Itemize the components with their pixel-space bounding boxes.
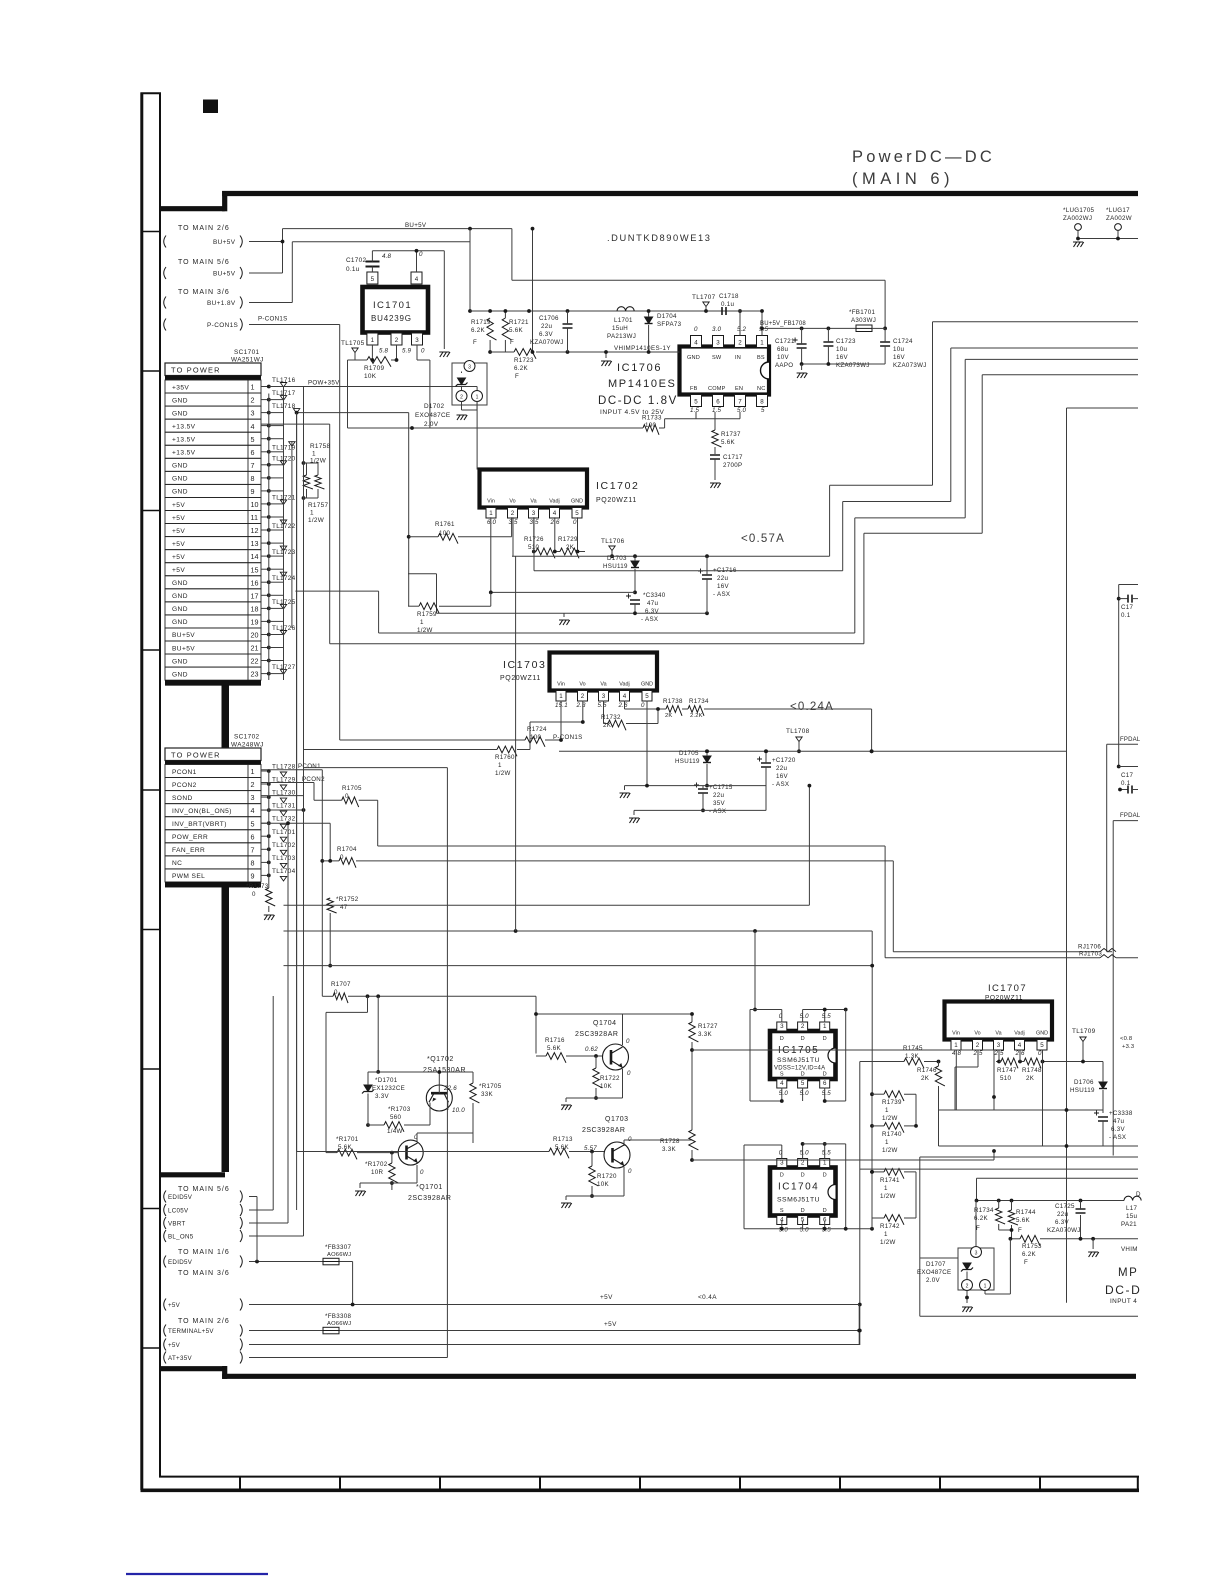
svg-text:<0.8: <0.8 [1120,1036,1132,1042]
svg-text:*R1703: *R1703 [388,1106,411,1113]
svg-text:R1746: R1746 [917,1067,937,1074]
footer blue rule [126,1573,268,1575]
wire BU+5V drop x=532.5 [531,227,535,354]
inductor L1703 15u PA21.. (cut) [1121,1191,1141,1228]
svg-text:MP: MP [1118,1267,1138,1279]
wire Q1702 loop left edge [367,1072,369,1125]
svg-text:GND: GND [172,671,188,678]
svg-text:EX1232CE: EX1232CE [372,1085,405,1092]
resistor R1752 47 [327,896,359,967]
svg-text:100: 100 [439,530,450,537]
svg-text:FPDAL: FPDAL [1120,813,1141,819]
wire IC1707 pin1 stub [939,1050,957,1110]
connector TO MAIN 2/6 (bottom) [164,1318,243,1364]
svg-text:1.5: 1.5 [712,407,722,414]
svg-text:ZA002W: ZA002W [1106,215,1132,222]
svg-text:3: 3 [716,340,720,347]
svg-text:+5V: +5V [172,567,185,574]
svg-text:1: 1 [310,510,314,517]
svg-text:4: 4 [553,510,557,517]
svg-text:R1713: R1713 [553,1136,573,1143]
svg-text:3: 3 [780,1023,784,1030]
svg-text:F: F [976,1225,980,1232]
svg-text:D: D [801,1173,805,1179]
svg-text:1/2W: 1/2W [495,770,511,777]
svg-text:1: 1 [371,337,375,344]
svg-text:1/2W: 1/2W [882,1147,898,1154]
resistor R1707 0 [322,981,536,1054]
svg-text:0.1u: 0.1u [721,301,735,308]
resistor R1746 2K [917,1062,945,1111]
svg-text:1: 1 [559,693,563,700]
svg-text:+5V: +5V [172,515,185,522]
svg-text:R1704: R1704 [337,846,357,853]
svg-text:IC1701: IC1701 [373,300,412,311]
svg-text:5.5: 5.5 [598,702,608,709]
svg-text:10: 10 [251,500,259,509]
wires IC1705 top pins [750,1008,848,1101]
ground below C1721 [797,362,886,378]
resistor R1748 2K [1018,1050,1103,1146]
capacitor C1702 0.1u [346,251,380,273]
output wire 5V from IC1702 [512,322,1138,558]
svg-text:Vo: Vo [974,1031,980,1037]
svg-text:IC1706: IC1706 [617,362,662,374]
svg-text:- ASX: - ASX [713,591,730,598]
svg-text:D1705: D1705 [679,750,699,757]
svg-text:INV_ON(BL_ON5): INV_ON(BL_ON5) [172,808,232,815]
svg-text:KZA073WJ: KZA073WJ [836,362,870,369]
svg-text:4: 4 [623,693,627,700]
diode D1707 EXO487CE (boxed) [917,1201,1010,1313]
svg-text:4: 4 [251,422,255,431]
resistor R1734b 6.2K F [974,1201,1010,1233]
svg-text:0.62: 0.62 [585,1046,598,1053]
resistor R1703 560 1/4W [368,1103,430,1135]
svg-text:D1702: D1702 [424,403,444,410]
resistor R1740 1 1/2W [872,1123,918,1155]
svg-text:PCON2: PCON2 [302,776,325,783]
svg-text:*R1752: *R1752 [336,896,359,903]
svg-text:C1718: C1718 [719,293,739,300]
svg-text:2K: 2K [566,544,575,551]
svg-text:6.3V: 6.3V [645,608,660,615]
resistor R1729 2K [555,517,585,558]
svg-text:1: 1 [251,767,255,776]
svg-text:*FB3307: *FB3307 [325,1244,351,1251]
resistor R1716 5.6K [536,1037,602,1063]
svg-text:22u: 22u [541,323,552,330]
svg-text:10u: 10u [836,346,847,353]
svg-text:Vin: Vin [952,1031,960,1037]
svg-text:5.5: 5.5 [822,1090,832,1097]
svg-text:TO MAIN 1/6: TO MAIN 1/6 [178,1249,230,1256]
svg-text:NC: NC [172,860,182,867]
svg-text:BS: BS [757,355,765,361]
svg-text:2K: 2K [921,1075,930,1082]
svg-text:0: 0 [573,519,577,526]
svg-text:GND: GND [172,463,188,470]
svg-text:6.0: 6.0 [487,519,497,526]
test points TL1716-TL1727 on SC1701 rows [262,377,300,675]
svg-text:4: 4 [694,340,698,347]
svg-text:D1706: D1706 [1074,1079,1094,1086]
svg-text:10K: 10K [364,373,377,380]
svg-text:R1753: R1753 [1022,1243,1042,1250]
svg-text:TO MAIN 3/6: TO MAIN 3/6 [178,289,230,296]
svg-text:PQ20WZ11: PQ20WZ11 [596,497,637,504]
wires IC1705 bottom pins [750,1062,827,1103]
svg-text:4.8: 4.8 [382,253,392,260]
svg-text:5: 5 [251,819,255,828]
wire right vert bus x=1066.5 [1067,408,1139,1303]
net +5V rail 1 [249,1305,859,1346]
svg-text:*FB3308: *FB3308 [325,1313,351,1320]
connector TO MAIN 3/6 (top) [164,289,243,331]
svg-text:3: 3 [602,693,606,700]
svg-text:GND: GND [172,606,188,613]
corner index square [203,100,218,114]
svg-text:5.5: 5.5 [822,1150,832,1157]
svg-text:KZA073WJ: KZA073WJ [893,362,927,369]
svg-text:5.2: 5.2 [737,326,747,333]
svg-text:22u: 22u [717,575,728,582]
svg-text:15uH: 15uH [612,325,628,332]
svg-text:VDSS=12V,ID=4A: VDSS=12V,ID=4A [774,1066,825,1072]
svg-text:+13.5V: +13.5V [172,423,196,430]
net PCON2 wire [262,776,342,800]
svg-text:2SC3928AR: 2SC3928AR [582,1127,625,1134]
capacitor C1718 0.1u (series) [719,293,764,336]
connector SC1702 TO POWER table [160,734,264,1175]
capacitor C1722 0.1u (upper right stub) [1117,585,1138,767]
svg-text:Q1704: Q1704 [593,1020,617,1027]
svg-text:R1719: R1719 [471,319,491,326]
svg-text:1: 1 [884,1185,888,1192]
IC1706 MP1410ES [598,326,769,416]
svg-text:SOND: SOND [172,795,193,802]
svg-text:+5V: +5V [168,1342,181,1349]
svg-text:R1720: R1720 [597,1173,617,1180]
svg-text:16V: 16V [717,583,729,590]
net P-CON1S wire [249,316,340,741]
test point TL1705 [341,340,374,362]
svg-text:R1723: R1723 [514,357,534,364]
svg-text:*Q1701: *Q1701 [416,1184,443,1191]
svg-text:HSU119: HSU119 [603,563,628,570]
resistor R1720 10K [589,1152,617,1198]
mesh wire y=931 [284,556,873,1094]
svg-text:TL1707: TL1707 [692,294,716,301]
transistor Q1703 2SC3928AR (NPN) [582,1116,632,1175]
jumper RJ1703 wire [885,951,1138,958]
test point TL1707 [692,294,716,313]
svg-text:TO MAIN 2/6: TO MAIN 2/6 [178,225,230,232]
connector TO MAIN 2/6 (top) [164,225,243,248]
svg-text:16V: 16V [836,354,848,361]
svg-text:100: 100 [645,422,656,429]
svg-text:C1706: C1706 [539,315,559,322]
svg-text:D: D [823,1208,827,1214]
svg-text:20: 20 [251,631,259,640]
svg-text:FAN_ERR: FAN_ERR [172,847,205,854]
mesh branch to Q1701 base [326,996,368,1152]
resistor R1737 5.6K [712,412,741,454]
inductor L1701 15uH PA213WJ [607,307,636,340]
svg-text:22u: 22u [776,765,787,772]
svg-text:5: 5 [761,407,765,414]
svg-text:47u: 47u [1113,1118,1124,1125]
svg-text:BU+5V_FB1708: BU+5V_FB1708 [760,321,806,327]
svg-text:R1733: R1733 [642,415,662,422]
svg-text:+13.5V: +13.5V [172,437,196,444]
svg-text:AO66WJ: AO66WJ [327,1252,351,1258]
wires IC1704 bottom pins [744,1196,874,1231]
svg-text:GND: GND [172,658,188,665]
svg-text:Vadj: Vadj [549,499,559,505]
svg-text:R1716: R1716 [545,1037,565,1044]
diode D1703 HSU119 [603,555,639,594]
mesh vertical wires mid-page [297,387,304,1237]
svg-text:17: 17 [251,591,259,600]
svg-text:6.3V: 6.3V [1111,1126,1126,1133]
resistor R1727 3.3K [689,1022,718,1095]
svg-text:GND: GND [172,489,188,496]
svg-text:L1701: L1701 [614,317,633,324]
svg-text:GND: GND [172,476,188,483]
svg-text:TO MAIN 2/6: TO MAIN 2/6 [178,1318,230,1325]
svg-text:13: 13 [251,539,259,548]
wire R1727 mid to IC1705 [692,1050,996,1110]
wire INV_ON row [262,808,306,812]
svg-text:0: 0 [419,251,423,258]
svg-text:10K: 10K [597,1181,609,1188]
svg-text:22.6: 22.6 [443,1085,457,1092]
svg-text:F: F [1018,1227,1022,1234]
svg-text:Vo: Vo [509,499,515,505]
svg-text:3: 3 [532,510,536,517]
svg-text:5.0: 5.0 [800,1227,810,1234]
svg-text:KZA070WJ: KZA070WJ [530,339,564,346]
svg-text:0: 0 [420,1169,424,1176]
svg-text:R1757: R1757 [308,502,328,509]
op-amp IC1701 BU4239G [363,251,429,355]
svg-text:*FB1701: *FB1701 [849,309,875,316]
wires IC1704 top pins [744,1142,846,1229]
resistor R1709 10K [364,345,430,428]
svg-text:2SC3928AR: 2SC3928AR [408,1195,451,1202]
svg-text:1: 1 [823,1160,827,1167]
svg-text:D: D [780,1036,784,1042]
svg-text:14: 14 [251,552,259,561]
diode D1701 EX1232CE 3.3V (zener) [362,1072,405,1127]
svg-text:6.3V: 6.3V [1055,1219,1070,1226]
ground mid (below C1706 wire) [601,350,612,366]
text MP DC-D INPUT (IC1708 cut) [1105,1267,1141,1305]
svg-text:Va: Va [600,682,606,688]
svg-text:2.2K: 2.2K [690,713,703,719]
svg-text:4: 4 [415,276,419,283]
svg-text:5.0: 5.0 [800,1150,810,1157]
svg-text:5.6K: 5.6K [1016,1217,1031,1224]
svg-text:5.0: 5.0 [800,1013,810,1020]
svg-text:- ASX: - ASX [1109,1134,1126,1141]
resistor R1721 5.6K F [490,309,529,352]
svg-text:FPDAL: FPDAL [1120,737,1141,743]
lug LUG1705 ZA002WJ [1063,207,1138,247]
net FPDAL lower [1113,813,1141,1156]
svg-text:P-CON1S: P-CON1S [207,322,238,329]
svg-text:3.3K: 3.3K [662,1146,677,1153]
svg-text:15u: 15u [1126,1213,1137,1220]
svg-text:2: 2 [801,1023,805,1030]
svg-text:SW: SW [712,355,722,361]
svg-text:1: 1 [823,1023,827,1030]
svg-text:IC1702: IC1702 [596,480,639,492]
svg-text:PCON1: PCON1 [172,769,197,776]
svg-text:0: 0 [345,793,349,800]
connector SC1701 TO POWER table [165,349,264,748]
svg-text:8: 8 [251,859,255,868]
second DC-DC converter loop (cut at page edge) [860,1157,1138,1316]
svg-text:2: 2 [581,693,585,700]
svg-text:- ASX: - ASX [709,808,726,815]
net +5V rail 2 [249,1344,859,1346]
svg-text:R1732: R1732 [601,714,621,721]
svg-text:10u: 10u [893,346,904,353]
jumper RJ1706 wire [893,944,1116,952]
svg-text:TL1701: TL1701 [272,829,296,836]
svg-text:5.0: 5.0 [737,407,747,414]
svg-text:Vin: Vin [557,682,565,688]
svg-text:2K: 2K [1026,1075,1035,1082]
diode D1705 HSU119 [675,749,711,787]
svg-text:D1704: D1704 [657,313,677,320]
svg-text:EDID5V: EDID5V [168,1194,193,1201]
svg-text:D: D [823,1036,827,1042]
svg-text:3: 3 [251,793,255,802]
svg-text:R1758: R1758 [310,443,330,450]
wire TL1718 row to R1761 [295,411,411,607]
svg-text:AT+35V: AT+35V [168,1355,192,1362]
svg-text:R1709: R1709 [364,365,384,372]
svg-text:POW_ERR: POW_ERR [172,834,208,841]
svg-text:TL1731: TL1731 [272,803,296,810]
svg-text:9: 9 [251,872,255,881]
transistor Q1702 2SA1530AR (PNP) [368,1056,473,1114]
ground below IC1701 right [439,352,450,357]
svg-text:PQ20WZ11: PQ20WZ11 [500,675,541,682]
svg-text:3: 3 [997,1042,1001,1049]
svg-text:R1741: R1741 [880,1177,900,1184]
svg-text:PA213WJ: PA213WJ [607,333,636,340]
svg-text:GND: GND [172,410,188,417]
wire Vadj col down [553,517,557,553]
svg-text:TO POWER: TO POWER [171,366,221,375]
svg-text:C17: C17 [1121,604,1134,611]
svg-text:10R: 10R [371,1169,383,1176]
svg-text:+13.5V: +13.5V [172,450,196,457]
svg-text:2.0V: 2.0V [926,1277,941,1284]
ground Q1704 emitter [561,1069,623,1110]
svg-text:7: 7 [251,461,255,470]
net FPDAL upper [1107,737,1141,952]
svg-text:R1738: R1738 [663,698,683,705]
svg-text:R1745: R1745 [903,1045,923,1052]
svg-text:6: 6 [716,399,720,406]
svg-text:33K: 33K [481,1091,493,1098]
svg-text:3: 3 [975,1251,978,1257]
svg-text:8: 8 [760,399,764,406]
svg-text:0.1: 0.1 [1121,780,1131,787]
svg-text:+5V: +5V [172,554,185,561]
svg-text:1: 1 [312,451,316,458]
svg-text:2: 2 [251,396,255,405]
svg-text:BU+1.8V: BU+1.8V [207,300,236,307]
svg-text:1/2W: 1/2W [880,1239,896,1246]
svg-text:R1707: R1707 [331,981,351,988]
svg-text:1: 1 [984,1284,987,1290]
svg-text:*LUG1705: *LUG1705 [1063,207,1095,214]
wire IC1707 output mesh [939,1108,1139,1148]
svg-text:S: S [780,1208,784,1214]
svg-text:R1734: R1734 [974,1207,994,1214]
svg-text:+C3338: +C3338 [1109,1110,1133,1117]
svg-text:PQ20WZ11: PQ20WZ11 [985,995,1023,1002]
svg-text:5.6K: 5.6K [509,327,524,334]
top schematic border [160,206,225,211]
svg-text:- ASX: - ASX [641,616,658,623]
svg-text:TL1702: TL1702 [272,842,296,849]
diode D1702 EXO487CE (boxed) [415,361,487,429]
svg-text:+5V: +5V [172,528,185,535]
svg-text:TL1704: TL1704 [272,868,296,875]
svg-text:ZA002WJ: ZA002WJ [1063,215,1092,222]
risers from bottom connectors [249,821,304,1261]
svg-text:15: 15 [251,565,259,574]
svg-text:560: 560 [390,1114,401,1121]
svg-text:KZA070WJ: KZA070WJ [1047,1227,1081,1234]
svg-text:2700P: 2700P [723,462,742,469]
mesh wire y=965.6 [284,964,875,968]
svg-text:GND: GND [641,682,653,688]
svg-text:5.0: 5.0 [779,1227,789,1234]
svg-text:6: 6 [251,448,255,457]
svg-text:Vadj: Vadj [1014,1031,1024,1037]
svg-text:DC-D: DC-D [1105,1283,1141,1297]
svg-text:R1742: R1742 [880,1223,900,1230]
resistor R1726 510 [524,517,555,558]
wire IC1702 3.3V staircase rail [534,348,1138,571]
svg-text:0.1: 0.1 [1121,612,1131,619]
svg-text:R1744: R1744 [1016,1209,1036,1216]
svg-text:6.2K: 6.2K [1022,1251,1037,1258]
svg-text:0: 0 [694,326,698,333]
svg-text:BU+5V: BU+5V [213,239,236,246]
capacitor C1721 68u 10V AAPO [775,328,807,369]
wire IC1701 pins down-left [348,360,356,428]
svg-text:TO MAIN 3/6: TO MAIN 3/6 [178,1270,230,1277]
svg-text:510: 510 [1000,1075,1011,1082]
svg-text:R1737: R1737 [721,431,741,438]
resistor R1723 6.2K F [490,349,679,380]
svg-text:IC1703: IC1703 [503,659,546,671]
svg-text:C1723: C1723 [836,338,856,345]
svg-text:TL1708: TL1708 [786,728,810,735]
svg-text:R1747: R1747 [997,1067,1017,1074]
svg-text:POW+35V: POW+35V [308,380,340,387]
resistor R1747 510 [996,1050,1018,1082]
